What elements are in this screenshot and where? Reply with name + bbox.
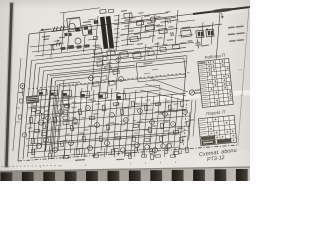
resistor R [105, 66, 111, 71]
wire bus B3 horizontal [40, 51, 194, 68]
label C2 [59, 37, 65, 39]
wire bus B6 vertical [45, 78, 51, 151]
value label [120, 120, 125, 121]
wire slanted feed 3 [140, 90, 183, 100]
wire drop stub [123, 148, 126, 157]
wire bus B4 horizontal [44, 56, 186, 71]
capacitor block [77, 46, 81, 49]
wire drop stub [53, 148, 56, 157]
filter stage box 2 [63, 100, 69, 104]
wire [113, 92, 118, 151]
wire slanted feed 2 [145, 84, 186, 96]
wire transformer secondary lead [121, 13, 168, 19]
resistor R20 [120, 109, 123, 115]
value label [154, 43, 159, 45]
value label [38, 137, 43, 138]
film strip dark block 7 [129, 171, 141, 182]
wire [150, 100, 190, 104]
wire [30, 43, 64, 47]
value label [32, 105, 37, 107]
wire bus B1 horizontal [32, 42, 194, 60]
value label [97, 152, 102, 153]
wire [77, 88, 82, 151]
wire [30, 105, 150, 116]
switch SA1 contacts [51, 25, 66, 31]
wire tap stub [114, 45, 120, 48]
resistor R16 [89, 116, 95, 119]
value label [121, 49, 127, 51]
handwriting: table 2 title [206, 109, 227, 116]
value label [131, 152, 136, 153]
IF can L12 [120, 52, 129, 58]
value label [109, 122, 114, 124]
L8 core [99, 95, 103, 98]
film strip dark block 8 [150, 170, 162, 181]
handwriting: schematic note line 2 [207, 155, 225, 163]
wire [38, 31, 40, 52]
wire drop stub [63, 148, 66, 157]
arrow terminal [221, 13, 224, 18]
value label [16, 121, 20, 122]
value label [101, 110, 106, 111]
value label [108, 48, 114, 50]
value label [121, 10, 127, 12]
resistor R30 [186, 121, 189, 127]
value label [134, 132, 138, 133]
wire [193, 100, 196, 137]
label in module A1 [139, 66, 146, 68]
resistor R26 [160, 123, 163, 129]
wire drop stub [43, 148, 46, 157]
value label [39, 107, 44, 109]
value label [155, 142, 160, 143]
wire right boundary dashed [183, 100, 187, 146]
stray mark [145, 162, 146, 164]
margin speck [240, 94, 244, 95]
value label [80, 133, 85, 134]
resistor R55 [159, 136, 162, 142]
value label [148, 136, 153, 137]
label 6.3mm [75, 159, 85, 161]
resistor R [101, 76, 107, 81]
value label [113, 123, 119, 125]
resistor R56 [173, 152, 179, 155]
value label [145, 99, 150, 100]
wire bus B1 vertical [23, 61, 32, 160]
transistor VT23 [88, 146, 93, 151]
value label [81, 117, 86, 118]
capacitor C5 [171, 32, 173, 36]
wire [30, 92, 120, 101]
module A1 outline [136, 58, 186, 82]
wire drop stub [173, 148, 176, 157]
value label [124, 19, 131, 21]
value label [95, 103, 100, 104]
wire to table [216, 12, 220, 59]
wire [28, 93, 186, 108]
value label [149, 35, 155, 37]
IF can L13 [133, 53, 141, 59]
value label [71, 122, 76, 124]
wire transformer primary lead [88, 29, 96, 30]
capacitor C64 [155, 155, 160, 158]
capacitor C0 [94, 20, 98, 23]
resistor R18 [106, 124, 109, 130]
value label [165, 11, 170, 13]
wire [52, 84, 58, 156]
resistor R63 [150, 148, 153, 153]
value label [167, 39, 173, 41]
resistor R47 [93, 155, 99, 158]
wire [175, 10, 178, 45]
L9 core [117, 96, 121, 99]
sheet border: bottom edge (dash-dot) [18, 145, 238, 161]
value label [67, 98, 72, 99]
resistor R65 [165, 148, 168, 153]
filter Z1 crystal a [84, 26, 88, 29]
value label [182, 130, 187, 131]
wire [35, 49, 95, 56]
wire transformer secondary lead [121, 37, 150, 40]
value label [91, 100, 96, 101]
resistor R [93, 82, 99, 87]
wire [164, 17, 166, 45]
resistor R27 [168, 105, 171, 111]
resistor R48 [99, 136, 102, 142]
value label [156, 25, 163, 27]
wire bus B5 horizontal [48, 65, 135, 74]
wire transformer secondary lead [121, 17, 176, 24]
wire tap stub [114, 28, 120, 31]
value label [50, 127, 54, 128]
resistor R50 [115, 136, 121, 139]
wire [153, 14, 155, 43]
wire bus B5 vertical [41, 75, 47, 149]
value label [88, 125, 94, 127]
wire [178, 34, 193, 36]
value label [94, 132, 98, 133]
switch SA2 contacts [54, 42, 61, 47]
resistor R5 [159, 28, 167, 33]
wire tap stub [114, 36, 120, 39]
value label [184, 115, 191, 117]
resistor R49 [111, 149, 114, 155]
wire transformer primary lead [88, 38, 96, 41]
wire jack lead [21, 88, 24, 96]
transistor VT30 [145, 145, 150, 150]
resistor R53 [144, 138, 150, 141]
label XS1 [18, 92, 23, 93]
resistor R1 [108, 9, 113, 13]
transistor VT11 [124, 118, 129, 123]
wire [201, 22, 203, 45]
value label [180, 42, 186, 44]
value label [155, 16, 160, 18]
oscillator block G1 [67, 17, 82, 32]
scan shadow streak (decorative) [6, 2, 12, 168]
wire bus B10 [62, 74, 186, 86]
margin speck [238, 69, 242, 70]
label above G1 [69, 17, 78, 19]
label: model name 3 [229, 39, 244, 42]
value label [95, 46, 101, 48]
value label [54, 119, 58, 120]
resistor R25 [155, 102, 161, 105]
resistor R43 [60, 141, 63, 147]
capacitor C40 [41, 132, 46, 135]
value label [87, 99, 92, 100]
wire [51, 92, 56, 153]
label in module A1c [144, 73, 150, 75]
value label [125, 99, 130, 100]
value label [163, 121, 168, 123]
wire [27, 110, 186, 124]
value label [147, 109, 153, 111]
antenna input arrow [41, 28, 51, 32]
resistor R2 [68, 45, 73, 49]
resistor R46 [82, 136, 85, 142]
label VT3/VT4 [198, 25, 210, 28]
filter stage box 3 [63, 105, 69, 109]
wire bottom rail [28, 141, 184, 153]
resistor R90 [19, 99, 22, 103]
value label [47, 136, 52, 137]
transistor VT6 [59, 110, 64, 115]
film strip dark block 4 [65, 171, 77, 181]
IF transformer L4 [39, 89, 47, 95]
value label [160, 112, 164, 113]
wire transformer right rail [116, 15, 119, 51]
transistor VT8 [86, 106, 91, 111]
transistor VT4 [206, 29, 214, 37]
label module A1 [143, 62, 152, 64]
stray mark [85, 164, 86, 166]
value label [159, 113, 165, 115]
transistor VT3 [196, 30, 204, 38]
value label [71, 112, 76, 114]
resistor R41 [43, 138, 49, 141]
module A2 outline (thin) [124, 85, 160, 93]
film strip dark block 10 [193, 170, 205, 181]
module boundary (dash) [28, 73, 190, 89]
value label [169, 142, 173, 143]
wire [43, 31, 45, 57]
wire [45, 90, 50, 151]
wire bus B2 vertical [28, 64, 36, 157]
resistor R21 [131, 101, 134, 107]
value label [138, 12, 143, 14]
film strip dark block 9 [172, 170, 184, 181]
wire [64, 86, 70, 159]
resistor R24 [148, 127, 151, 133]
film strip dark block 12 [236, 169, 248, 181]
value label [79, 148, 84, 149]
value label [130, 17, 135, 19]
transistor VT53 [116, 58, 120, 62]
meter PA1 [189, 90, 194, 95]
resistor R71 [29, 117, 32, 123]
IF can L10 [94, 49, 103, 55]
IF can L11 [107, 50, 116, 56]
wire slanted feed 1 [150, 78, 188, 92]
value label [137, 121, 142, 123]
VT4 bar [208, 31, 210, 35]
handwriting: schematic note line 1 [199, 148, 237, 159]
resistor R40 [31, 149, 34, 155]
wire [28, 120, 170, 132]
value label [96, 58, 101, 60]
transistor VT22 [69, 141, 74, 146]
wire [157, 42, 158, 58]
wire input line [40, 27, 68, 31]
value label [131, 145, 136, 146]
capacitor C1 [100, 9, 106, 13]
transistor VT20 [37, 144, 42, 149]
value label [71, 107, 76, 109]
value label [114, 66, 119, 68]
L4 core [39, 92, 42, 94]
value label [71, 117, 76, 119]
wire margin [13, 58, 21, 151]
value label [162, 135, 167, 136]
wire [119, 90, 125, 156]
value label [173, 19, 178, 21]
value label [134, 51, 140, 53]
value label [155, 104, 160, 105]
wire transformer secondary lead [121, 44, 134, 46]
film strip band (photo background, decorative) [0, 167, 250, 181]
wire [94, 86, 100, 157]
value label [172, 133, 176, 134]
value label [173, 103, 178, 104]
label under transformer [92, 45, 99, 47]
label PA1 [195, 89, 202, 91]
label output [116, 159, 124, 161]
wire [180, 94, 185, 149]
wire [57, 90, 62, 149]
wire [150, 96, 154, 149]
wire drop stub [83, 148, 86, 157]
transformer T1 [100, 16, 114, 49]
wire top link [60, 8, 100, 13]
resistor R10 [35, 110, 41, 113]
value label [144, 15, 150, 17]
transistor VT12 [138, 109, 143, 114]
value label [52, 104, 57, 105]
wire [46, 78, 52, 151]
wire drop stub [143, 148, 146, 157]
resistor R73 [41, 113, 44, 119]
capacitor block [61, 47, 65, 50]
node junction [206, 29, 208, 31]
wire tap stub [114, 32, 120, 35]
tube VL1 [69, 23, 75, 29]
transistor VT27 [153, 148, 158, 153]
value label [98, 72, 103, 74]
filter stage box 6 [63, 121, 69, 125]
wire [84, 36, 85, 52]
wire [127, 12, 130, 46]
value label [164, 114, 169, 115]
wire bus B3 vertical [32, 68, 40, 155]
resistor R70 [31, 108, 36, 111]
value label [168, 109, 174, 111]
value label [147, 48, 152, 50]
transistor VT14 [163, 112, 168, 117]
label in module A1b [152, 69, 158, 71]
wire tap stub [114, 41, 120, 44]
value label [177, 127, 182, 128]
value label [129, 130, 135, 131]
wire right boundary [183, 55, 187, 101]
wire [131, 90, 137, 157]
resistor R80 [148, 51, 154, 56]
stray mark [160, 162, 161, 164]
value label [114, 148, 119, 149]
capacitor C3 [69, 33, 72, 36]
filter stage box 4 [63, 111, 69, 115]
resistor R13 [64, 104, 70, 107]
value label [134, 103, 138, 104]
wire [180, 24, 222, 29]
IF transformer L6 [62, 90, 72, 97]
value label [115, 103, 120, 104]
sheet border: top edge line [29, 7, 249, 34]
value label [68, 120, 74, 122]
value label [137, 43, 143, 45]
resistor R [97, 62, 103, 67]
capacitor C6 polarized [195, 39, 201, 48]
wire [67, 20, 70, 51]
resistor R58 [186, 147, 189, 153]
label: model name 2 [228, 32, 245, 35]
choke L2 [145, 24, 155, 30]
wire drop stub [103, 148, 106, 157]
wire [125, 94, 130, 153]
value label [134, 33, 140, 35]
resistor R45 [76, 149, 79, 155]
L7 core [81, 94, 85, 97]
transistor VT7 [73, 119, 78, 124]
capacitor C62 [141, 155, 146, 158]
value label [128, 108, 132, 109]
resistor R51 [129, 153, 132, 159]
wire [58, 80, 64, 151]
wire drop stub [113, 148, 116, 157]
wire [61, 20, 64, 53]
wire [100, 55, 103, 93]
value label [123, 107, 128, 109]
capacitor C66 [170, 155, 175, 158]
paper crease (not a component) [60, 90, 250, 106]
transistor VT40 [38, 120, 43, 125]
wire drop stub [93, 148, 96, 157]
transistor VT15 [171, 122, 176, 127]
arrow small [54, 40, 59, 43]
resistor R81 [160, 47, 166, 52]
resistor R72 [34, 129, 39, 132]
value label [103, 130, 108, 131]
transistor VT31 [161, 144, 166, 149]
resistor R12 [53, 117, 56, 123]
resistor R44 [63, 156, 69, 159]
IF transformer L8 [98, 92, 108, 99]
label: band text [42, 35, 50, 37]
film strip dark block 3 [43, 172, 55, 181]
resistor R52 [132, 136, 135, 142]
transistor VT5 [46, 116, 51, 121]
resistor R11 [42, 123, 45, 129]
